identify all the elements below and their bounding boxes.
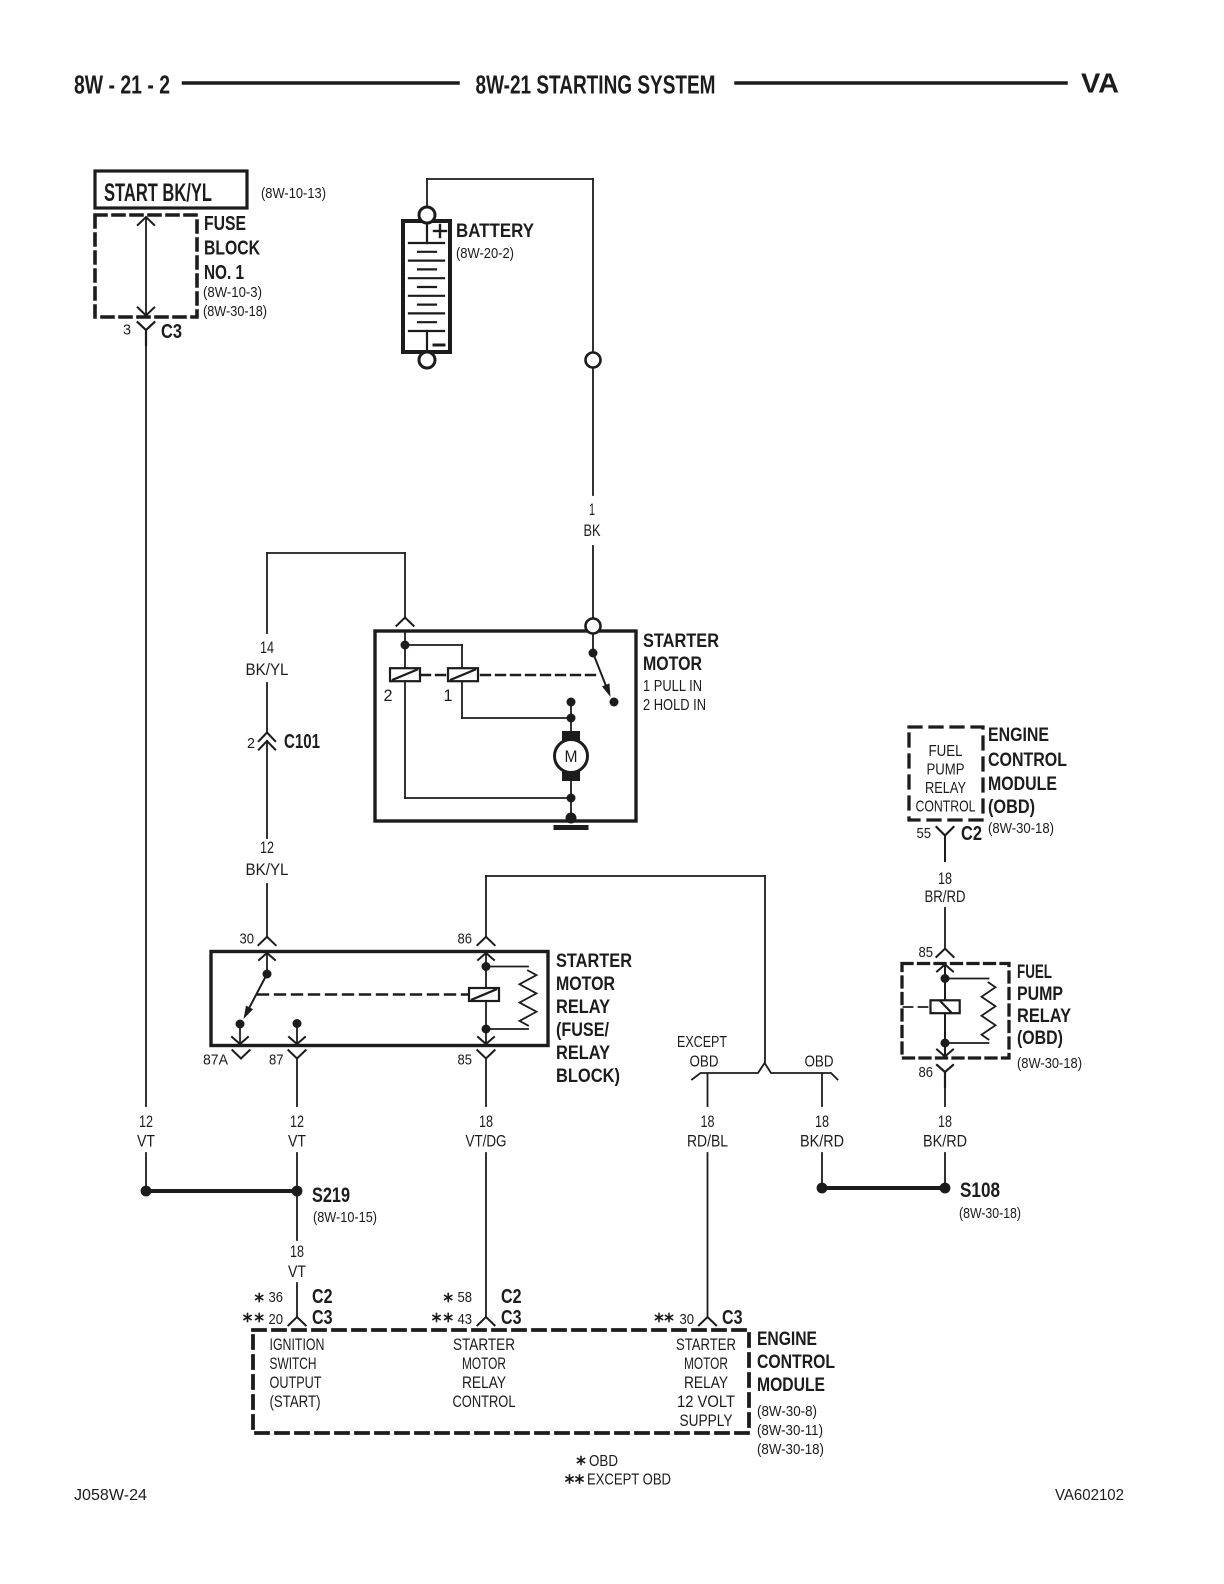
svg-text:86: 86 xyxy=(919,1065,934,1081)
svg-text:BLOCK: BLOCK xyxy=(204,238,260,260)
svg-text:C2: C2 xyxy=(961,823,982,845)
svg-text:12: 12 xyxy=(290,1113,304,1131)
svg-text:(OBD): (OBD) xyxy=(988,797,1035,818)
svg-text:C3: C3 xyxy=(501,1307,522,1329)
svg-text:(8W-30-18): (8W-30-18) xyxy=(988,820,1054,837)
svg-text:VT/DG: VT/DG xyxy=(466,1133,507,1151)
svg-text:43: 43 xyxy=(458,1312,473,1328)
svg-text:BK/RD: BK/RD xyxy=(923,1133,967,1151)
svg-text:SUPPLY: SUPPLY xyxy=(680,1412,733,1430)
svg-text:PUMP: PUMP xyxy=(927,762,965,779)
svg-text:(8W-30-18): (8W-30-18) xyxy=(959,1205,1021,1222)
svg-text:C3: C3 xyxy=(722,1307,743,1329)
svg-text:(8W-20-2): (8W-20-2) xyxy=(456,245,514,262)
svg-text:87A: 87A xyxy=(203,1053,228,1069)
svg-text:OBD: OBD xyxy=(589,1453,618,1470)
svg-text:VT: VT xyxy=(288,1263,306,1281)
svg-text:VT: VT xyxy=(288,1133,306,1151)
svg-text:FUSE: FUSE xyxy=(204,213,246,235)
svg-text:12: 12 xyxy=(260,839,274,857)
svg-text:RELAY: RELAY xyxy=(925,780,966,797)
svg-text:EXCEPT OBD: EXCEPT OBD xyxy=(587,1472,671,1489)
svg-text:(8W-30-18): (8W-30-18) xyxy=(1017,1055,1082,1072)
svg-text:OBD: OBD xyxy=(690,1054,719,1071)
svg-text:BK/YL: BK/YL xyxy=(246,661,289,679)
svg-text:FUEL: FUEL xyxy=(1017,962,1052,983)
svg-text:CONTROL: CONTROL xyxy=(988,750,1067,771)
svg-text:START BK/YL: START BK/YL xyxy=(104,179,212,207)
svg-text:36: 36 xyxy=(269,1290,284,1306)
svg-text:20: 20 xyxy=(269,1312,284,1328)
svg-text:BK/RD: BK/RD xyxy=(800,1133,844,1151)
svg-text:14: 14 xyxy=(260,639,274,657)
svg-text:ENGINE: ENGINE xyxy=(988,725,1049,746)
svg-text:CONTROL: CONTROL xyxy=(916,799,976,816)
svg-text:ENGINE: ENGINE xyxy=(757,1329,817,1350)
svg-text:(8W-30-11): (8W-30-11) xyxy=(757,1422,823,1439)
svg-text:MOTOR: MOTOR xyxy=(462,1355,506,1373)
svg-text:EXCEPT: EXCEPT xyxy=(677,1034,727,1051)
svg-text:S219: S219 xyxy=(312,1184,350,1207)
svg-text:BR/RD: BR/RD xyxy=(925,888,966,906)
svg-text:8W-21 STARTING SYSTEM: 8W-21 STARTING SYSTEM xyxy=(476,70,716,100)
svg-text:IGNITION: IGNITION xyxy=(270,1336,325,1354)
svg-text:1: 1 xyxy=(444,687,453,705)
svg-text:87: 87 xyxy=(269,1053,284,1069)
svg-text:SWITCH: SWITCH xyxy=(270,1355,317,1373)
svg-text:MOTOR: MOTOR xyxy=(684,1355,728,1373)
svg-text:30: 30 xyxy=(240,932,255,948)
svg-text:M: M xyxy=(565,747,578,766)
svg-text:85: 85 xyxy=(458,1053,473,1069)
svg-text:2 HOLD IN: 2 HOLD IN xyxy=(643,697,706,714)
svg-text:8W - 21 - 2: 8W - 21 - 2 xyxy=(74,70,170,100)
svg-text:J058W-24: J058W-24 xyxy=(74,1487,147,1504)
svg-text:VA: VA xyxy=(1081,68,1119,99)
svg-text:OBD: OBD xyxy=(805,1054,834,1071)
svg-text:OUTPUT: OUTPUT xyxy=(270,1374,322,1392)
svg-text:(START): (START) xyxy=(270,1393,321,1411)
svg-text:85: 85 xyxy=(919,945,934,961)
svg-text:(8W-10-13): (8W-10-13) xyxy=(261,185,326,202)
svg-text:(8W-30-8): (8W-30-8) xyxy=(757,1403,817,1420)
svg-text:STARTER: STARTER xyxy=(676,1336,736,1354)
svg-text:RELAY: RELAY xyxy=(556,1043,610,1064)
svg-text:86: 86 xyxy=(458,932,473,948)
svg-text:RD/BL: RD/BL xyxy=(687,1133,728,1151)
svg-text:STARTER: STARTER xyxy=(453,1336,515,1354)
svg-text:(8W-30-18): (8W-30-18) xyxy=(203,303,267,320)
svg-text:1: 1 xyxy=(589,501,595,519)
svg-text:RELAY: RELAY xyxy=(556,997,610,1018)
svg-text:C2: C2 xyxy=(501,1286,522,1308)
svg-text:18: 18 xyxy=(938,1113,952,1131)
svg-text:NO. 1: NO. 1 xyxy=(204,262,244,284)
svg-text:C3: C3 xyxy=(161,321,182,343)
svg-text:FUEL: FUEL xyxy=(929,743,963,760)
svg-text:MOTOR: MOTOR xyxy=(643,654,702,675)
svg-text:18: 18 xyxy=(479,1113,493,1131)
svg-text:55: 55 xyxy=(917,826,932,842)
svg-text:RELAY: RELAY xyxy=(462,1374,506,1392)
svg-text:S108: S108 xyxy=(960,1179,1000,1202)
svg-text:18: 18 xyxy=(815,1113,829,1131)
svg-text:STARTER: STARTER xyxy=(556,951,632,972)
svg-text:1 PULL IN: 1 PULL IN xyxy=(643,678,702,695)
svg-text:2: 2 xyxy=(247,735,255,752)
svg-text:RELAY: RELAY xyxy=(1017,1006,1071,1027)
svg-text:30: 30 xyxy=(680,1312,695,1328)
svg-text:CONTROL: CONTROL xyxy=(453,1393,516,1411)
svg-text:(8W-10-3): (8W-10-3) xyxy=(203,284,262,301)
svg-text:(FUSE/: (FUSE/ xyxy=(556,1020,610,1041)
svg-text:RELAY: RELAY xyxy=(684,1374,728,1392)
svg-text:MODULE: MODULE xyxy=(988,774,1057,795)
svg-text:(OBD): (OBD) xyxy=(1017,1028,1063,1049)
svg-text:PUMP: PUMP xyxy=(1017,984,1063,1005)
svg-text:12: 12 xyxy=(139,1113,153,1131)
svg-text:3: 3 xyxy=(123,322,131,339)
svg-text:VT: VT xyxy=(137,1133,155,1151)
svg-text:(8W-30-18): (8W-30-18) xyxy=(757,1441,824,1458)
svg-text:BK: BK xyxy=(584,522,601,540)
svg-text:MOTOR: MOTOR xyxy=(556,974,615,995)
svg-text:18: 18 xyxy=(290,1243,304,1261)
svg-text:STARTER: STARTER xyxy=(643,631,719,652)
svg-text:2: 2 xyxy=(384,687,393,705)
svg-text:18: 18 xyxy=(938,870,952,888)
svg-text:MODULE: MODULE xyxy=(757,1375,825,1396)
svg-text:C101: C101 xyxy=(284,731,320,753)
svg-text:VA602102: VA602102 xyxy=(1055,1487,1124,1504)
svg-text:BK/YL: BK/YL xyxy=(246,861,289,879)
svg-text:CONTROL: CONTROL xyxy=(757,1352,835,1373)
svg-text:C3: C3 xyxy=(312,1307,333,1329)
svg-text:58: 58 xyxy=(458,1290,473,1306)
svg-text:BLOCK): BLOCK) xyxy=(556,1066,620,1087)
svg-text:18: 18 xyxy=(701,1113,715,1131)
svg-text:(8W-10-15): (8W-10-15) xyxy=(313,1209,377,1226)
svg-text:12 VOLT: 12 VOLT xyxy=(677,1393,735,1411)
svg-text:C2: C2 xyxy=(312,1286,333,1308)
svg-text:BATTERY: BATTERY xyxy=(456,221,534,242)
